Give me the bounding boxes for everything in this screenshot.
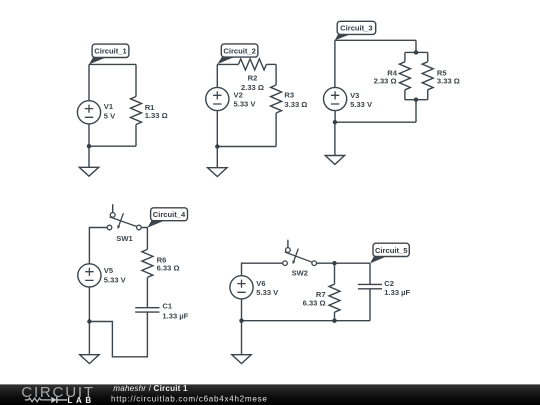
junction parallel bottom C3 [414, 98, 418, 102]
resistor R4 [399, 62, 410, 90]
svg-text:Circuit_4: Circuit_4 [153, 210, 186, 219]
wire top-left C2 [217, 63, 238, 65]
svg-text:LAB: LAB [68, 396, 95, 405]
junction C4 [87, 319, 91, 323]
svg-text:R3: R3 [284, 91, 294, 100]
svg-text:1.33 Ω: 1.33 Ω [145, 111, 168, 120]
resistor R1 [131, 97, 142, 125]
resistor R6 [142, 249, 153, 277]
svg-text:Circuit_3: Circuit_3 [340, 24, 373, 33]
label Circuit_3 [335, 21, 376, 40]
wire V6 down C5 [241, 299, 243, 321]
wire R7 down C5 [334, 312, 336, 321]
svg-text:5.33 V: 5.33 V [234, 100, 257, 109]
ground C1 [79, 146, 98, 176]
wire left-lower C3 [334, 111, 336, 123]
logo diode [51, 397, 56, 403]
svg-text:R2: R2 [248, 73, 258, 82]
wire top C3 [335, 39, 416, 41]
junction parallel top C3 [414, 50, 418, 54]
label Circuit_2 [217, 44, 258, 64]
ground C4 [80, 322, 99, 364]
label Circuit_5 [370, 243, 409, 263]
svg-text:Circuit_2: Circuit_2 [223, 46, 256, 55]
svg-text:http://circuitlab.com/c6ab4x4h: http://circuitlab.com/c6ab4x4h2mese [111, 395, 268, 404]
svg-text:3.33 Ω: 3.33 Ω [437, 77, 460, 86]
svg-text:1.33 µF: 1.33 µF [384, 288, 410, 297]
wire C2 down C5 [369, 289, 371, 321]
wire left-upper C2 [216, 64, 218, 87]
ground C2 [208, 147, 227, 177]
wire bottom C1 [89, 145, 136, 147]
voltage source V1 [77, 101, 100, 124]
switch SW1 [107, 204, 141, 230]
voltage source V6 [230, 276, 253, 299]
wire bottom C3 [335, 121, 416, 123]
wire from V5 up C4 [89, 228, 107, 264]
wire top C1 [89, 63, 136, 65]
svg-text:5.33 V: 5.33 V [256, 288, 279, 297]
wire bottom zigzag path C4 [89, 312, 147, 357]
wire right-upper C2 [275, 64, 277, 85]
wire left-lower C1 [88, 124, 90, 146]
logo resistor zigzag [25, 398, 51, 402]
resistor R3 [271, 85, 282, 113]
svg-text:C1: C1 [162, 302, 172, 311]
junction C1 [87, 144, 91, 148]
wire parallel top bar C3 [405, 52, 428, 61]
wire V5 down C4 [88, 287, 90, 322]
svg-text:3.33 Ω: 3.33 Ω [284, 100, 307, 109]
svg-text:SW2: SW2 [292, 269, 308, 278]
svg-text:V2: V2 [234, 90, 243, 99]
svg-text:V1: V1 [104, 102, 114, 111]
voltage source V3 [324, 87, 347, 110]
ground C3 [325, 122, 344, 164]
svg-text:6.33 Ω: 6.33 Ω [157, 264, 180, 273]
svg-text:Circuit_5: Circuit_5 [375, 246, 408, 255]
svg-text:C2: C2 [384, 279, 394, 288]
label Circuit_4 [148, 208, 188, 228]
wire switch to node C5 [317, 262, 371, 264]
wire node down to R7 [334, 263, 336, 284]
voltage source V5 [78, 264, 101, 287]
wire right drop C3 [415, 40, 417, 52]
capacitor C1 [135, 308, 159, 312]
wire left-upper C1 [88, 64, 90, 100]
svg-text:V6: V6 [256, 279, 265, 288]
label Circuit_1 [89, 44, 129, 64]
junction C3 [333, 120, 337, 124]
wire R6 to C1 [146, 277, 148, 307]
wire right-upper C1 [135, 64, 137, 96]
svg-text:6.33 Ω: 6.33 Ω [303, 299, 326, 308]
svg-text:2.33 Ω: 2.33 Ω [374, 77, 397, 86]
wire left-lower C2 [216, 111, 218, 147]
svg-text:1.33 µF: 1.33 µF [162, 312, 188, 321]
junction C2 [215, 144, 219, 148]
wire bottom C2 [217, 146, 276, 148]
switch SW2 [283, 240, 317, 266]
wire top-right C2 [266, 63, 276, 65]
resistor R2 [238, 59, 266, 70]
svg-text:5.33 V: 5.33 V [350, 100, 373, 109]
capacitor C2 [358, 284, 382, 288]
wire switch to R6 C4 [141, 228, 147, 250]
svg-text:maheshr / Circuit 1: maheshr / Circuit 1 [113, 384, 188, 393]
junction R7 bottom C5 [332, 319, 336, 323]
wire C2 branch down C5 [369, 263, 371, 284]
junction V6 bottom C5 [239, 319, 243, 323]
svg-text:5 V: 5 V [104, 112, 116, 121]
wire parallel bottom bar C3 [405, 90, 428, 100]
svg-text:2.33 Ω: 2.33 Ω [241, 83, 264, 92]
wire left-upper C3 [334, 40, 336, 87]
svg-text:Circuit_1: Circuit_1 [94, 47, 127, 56]
svg-text:SW1: SW1 [116, 234, 133, 243]
wire right-lower C2 [275, 113, 277, 147]
wire from V6 up C5 [242, 263, 283, 276]
ground C5 [232, 321, 251, 364]
wire right-lower C1 [135, 125, 137, 147]
voltage source V2 [206, 87, 229, 110]
junction top R7 C5 [332, 261, 336, 265]
svg-text:V5: V5 [104, 266, 114, 275]
wire bottom C5 [242, 320, 371, 322]
svg-text:5.33 V: 5.33 V [104, 275, 127, 284]
resistor R7 [329, 284, 340, 312]
resistor R5 [422, 62, 433, 90]
svg-text:V3: V3 [350, 91, 359, 100]
wire right-lower C3 [415, 100, 417, 123]
